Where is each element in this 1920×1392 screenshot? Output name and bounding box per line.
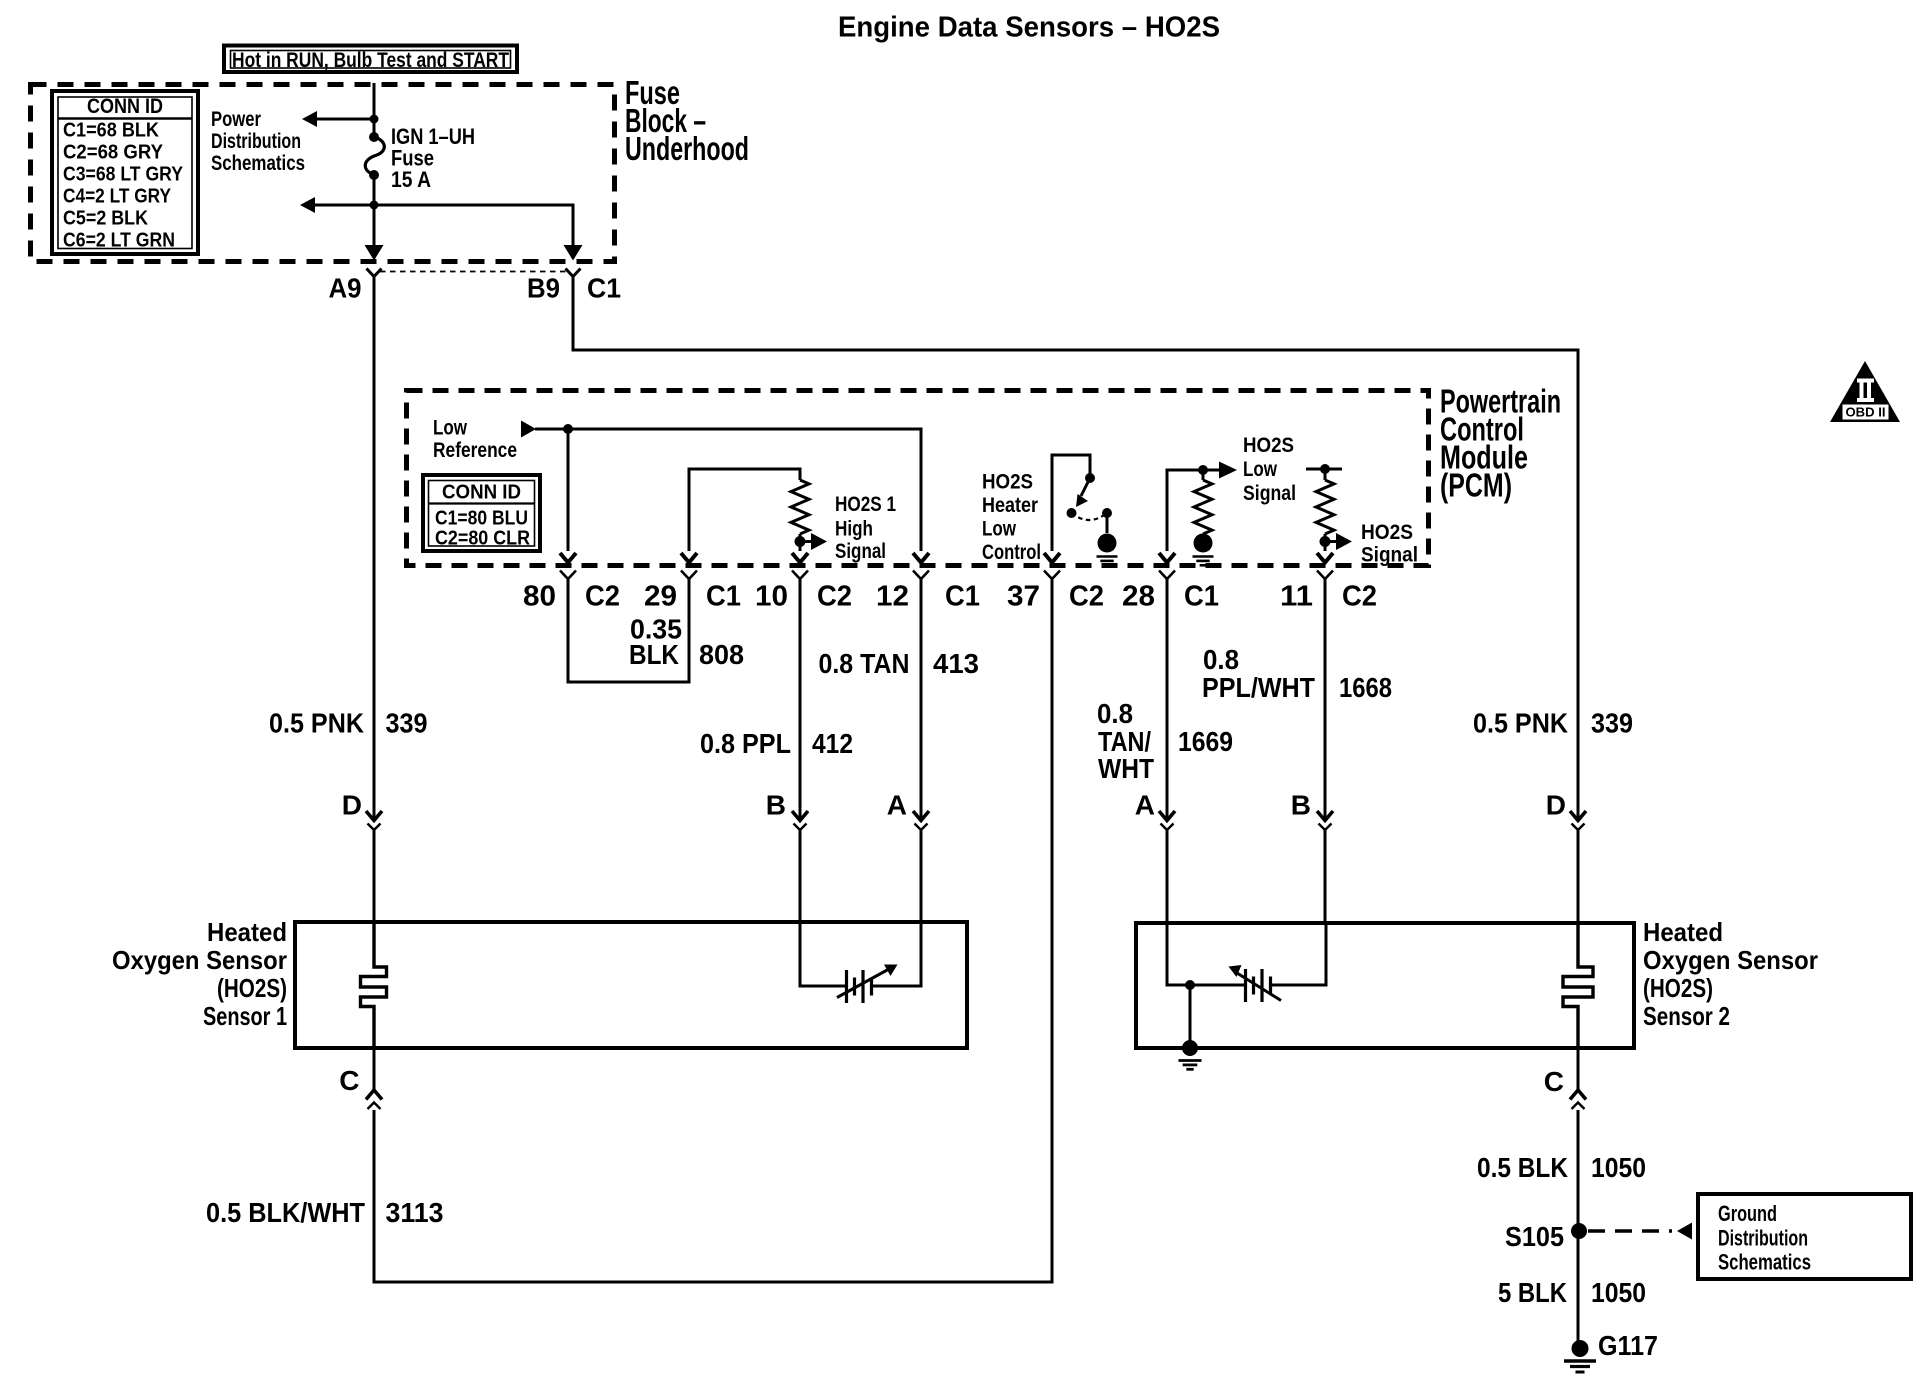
svg-text:Low: Low [1243,458,1278,481]
svg-text:C6=2 LT GRN: C6=2 LT GRN [63,229,175,252]
pin arrowhead 28 [1159,553,1175,563]
svg-text:Distribution: Distribution [1718,1226,1808,1251]
wire 1669 pin 28 to HO2S2 pin A [1166,579,1169,819]
svg-text:15 A: 15 A [391,167,431,192]
label 0.8 TAN/WHT 1669 [1097,698,1233,784]
svg-text:Schematics: Schematics [1718,1250,1811,1275]
connector pin D HO2S1 [342,790,382,831]
svg-text:B: B [766,790,786,821]
svg-text:C2=68 GRY: C2=68 GRY [63,141,163,164]
svg-text:0.5 PNK: 0.5 PNK [1473,708,1568,739]
svg-text:C2=80 CLR: C2=80 CLR [435,528,530,550]
sensor ground inside HO2S2 [1182,985,1198,1056]
svg-text:Heated: Heated [1643,917,1723,947]
svg-text:Oxygen Sensor: Oxygen Sensor [112,945,287,975]
resistor HO2S1 high signal [791,480,809,534]
fuse block underhood dashed box [31,85,615,262]
svg-text:HO2S 1: HO2S 1 [835,493,896,516]
svg-text:0.8 PPL: 0.8 PPL [700,728,791,759]
label 0.8 TAN 413 [819,648,980,679]
label 0.5 PNK 339 left [269,708,428,739]
label 0.5 PNK 339 right [1473,708,1633,739]
pin arrowhead 11 [1317,553,1333,563]
ground of heater driver [1097,555,1118,558]
svg-text:C1=80 BLU: C1=80 BLU [435,508,528,530]
svg-text:Signal: Signal [1243,482,1296,505]
svg-text:High: High [835,518,873,541]
hot in RUN label box [224,46,517,73]
svg-text:C1=68 BLK: C1=68 BLK [63,119,159,142]
PCM label [1440,383,1561,504]
svg-text:11: 11 [1280,581,1313,613]
junction at fuse output [370,201,379,210]
svg-text:A: A [1135,790,1155,821]
wire 1668 pin 11 to HO2S2 pin B [1324,579,1327,819]
pin arrowhead 29 [681,553,697,563]
powertrain control module dashed box [407,391,1429,566]
PCM pin 11 C2 [1280,571,1377,613]
svg-text:D: D [1546,790,1566,821]
svg-text:C3=68 LT GRY: C3=68 LT GRY [63,163,183,186]
connector pin A HO2S2 [1135,790,1175,831]
fuse IGN 1-UH 15 A [365,132,384,180]
label 0.8 PPL 412 [700,728,853,759]
svg-text:C1: C1 [945,581,980,613]
svg-text:0.8: 0.8 [1097,698,1133,729]
svg-text:12: 12 [876,581,909,613]
resistor HO2S low signal [1194,470,1213,553]
svg-text:808: 808 [699,639,744,670]
svg-text:Control: Control [982,541,1041,564]
power distribution schematics label [211,108,305,175]
svg-text:G117: G117 [1598,1330,1658,1361]
svg-text:C2: C2 [585,581,620,613]
svg-text:0.5 BLK: 0.5 BLK [1477,1152,1568,1183]
svg-text:10: 10 [755,581,788,613]
fuse block CONN ID table [52,91,198,254]
svg-text:A9: A9 [329,273,362,304]
HO2S signal output arrow [1325,533,1352,550]
label 0.35 BLK 808 [629,614,744,671]
svg-text:B: B [1291,790,1311,821]
ground symbol HO2S2 [1179,1059,1202,1062]
svg-text:C1: C1 [587,273,621,304]
svg-text:339: 339 [386,708,428,739]
connector pin B HO2S2 [1291,790,1333,831]
svg-text:412: 412 [812,728,853,759]
svg-text:Low: Low [982,518,1017,541]
svg-text:Distribution: Distribution [211,130,301,153]
svg-text:37: 37 [1007,581,1040,613]
connector pin B HO2S1 [766,790,808,831]
heater element HO2S1 [361,922,387,1048]
svg-text:1669: 1669 [1178,726,1233,757]
svg-text:C2: C2 [1069,581,1104,613]
PCM pin 28 C1 [1122,571,1219,613]
wire 1050 HO2S2 pin C to G117 [1577,1048,1580,1090]
ground of HO2S low signal resistor [1193,555,1214,558]
svg-text:Ground: Ground [1718,1201,1777,1226]
HO2S low signal output arrow [1219,462,1237,479]
svg-text:1050: 1050 [1591,1277,1646,1308]
svg-text:CONN ID: CONN ID [87,95,163,118]
junction at fuse input [370,115,379,124]
label 0.5 BLK 1050 [1477,1152,1646,1183]
heater element HO2S2 [1563,923,1593,1048]
HO2S Signal label [1361,521,1418,567]
low reference label [433,417,517,463]
wire 339 left segment A9 to HO2S1 pin D [373,277,376,820]
HO2S Low Signal label [1243,434,1296,505]
PCM CONN ID table [423,475,540,551]
svg-text:5 BLK: 5 BLK [1498,1277,1567,1308]
svg-text:0.5 PNK: 0.5 PNK [269,708,364,739]
ground G117 [1564,1330,1658,1372]
label 5 BLK 1050 [1498,1277,1646,1308]
OBD II symbol [1830,361,1900,422]
connector pin C HO2S2 [1544,1066,1586,1109]
terminal arrowhead A9 [365,245,384,261]
PCM pin 29 C1 [644,571,741,613]
wire 808 drain to pin 12 (low ref corner) [913,553,929,563]
label 0.5 BLK/WHT 3113 [206,1197,444,1228]
svg-text:Sensor 1: Sensor 1 [203,1001,287,1031]
heated oxygen sensor 2 label [1643,917,1818,1031]
svg-text:S105: S105 [1505,1221,1564,1252]
pin arrowhead 37 [1044,553,1060,563]
wire fuse output to B9 terminal [374,205,573,247]
label 0.8 PPL/WHT 1668 [1202,644,1392,703]
svg-text:Sensor 2: Sensor 2 [1643,1001,1730,1031]
svg-text:OBD II: OBD II [1846,405,1886,420]
svg-text:339: 339 [1591,708,1633,739]
svg-text:PPL/WHT: PPL/WHT [1202,672,1315,703]
wire 412 pin 10 to HO2S1 pin B [799,579,802,819]
svg-text:Reference: Reference [433,439,517,462]
svg-text:28: 28 [1122,581,1155,613]
svg-text:1050: 1050 [1591,1152,1646,1183]
fuse label IGN 1-UH / Fuse / 15 A [391,124,475,192]
wire fuse output [373,175,376,247]
low reference output arrow [521,421,536,438]
svg-text:HO2S: HO2S [1361,521,1413,544]
svg-text:C4=2 LT GRY: C4=2 LT GRY [63,185,171,208]
svg-text:C: C [1544,1066,1564,1097]
PCM pin 10 C2 [755,571,852,613]
svg-text:Oxygen Sensor: Oxygen Sensor [1643,945,1818,975]
sensor element HO2S2 (variable voltage cell) [1167,923,1326,1002]
ground distribution schematics reference [1588,1194,1911,1279]
PCM pin 37 C2 [1007,571,1104,613]
svg-text:Engine Data Sensors – HO2S: Engine Data Sensors – HO2S [838,12,1220,44]
heated oxygen sensor 1 label [112,917,287,1031]
terminal arrowhead B9 [564,245,583,261]
PCM pin 12 C1 [876,571,980,613]
svg-text:29: 29 [644,581,677,613]
junction below HO2S1 high signal resistor [795,534,806,551]
svg-text:Heater: Heater [982,494,1038,517]
heater low control net inside PCM [1052,455,1090,551]
wire 808 loop pin 80 to pin 29 [568,579,689,682]
HO2S1 high signal output arrow [800,533,827,550]
svg-text:Signal: Signal [835,540,886,563]
svg-text:C2: C2 [817,581,852,613]
HO2S low signal net inside PCM [1167,465,1219,551]
power distribution reference arrow upper [302,111,374,127]
wire ignition feed into fuse [373,83,376,133]
wire 339 right segment B9 to HO2S2 pin D [573,277,1578,820]
svg-text:80: 80 [523,581,556,613]
svg-text:C2: C2 [1342,581,1377,613]
svg-text:0.5 BLK/WHT: 0.5 BLK/WHT [206,1197,365,1228]
svg-text:B9: B9 [527,273,560,304]
HO2S signal net inside PCM [1306,464,1342,551]
fuse block underhood label [625,74,749,167]
connector pin C HO2S1 [339,1065,382,1109]
connector pin A HO2S1 [887,790,929,831]
internal net to HO2S1 high signal resistor [689,469,800,551]
PCM pin 80 C2 [523,571,620,613]
svg-text:0.8: 0.8 [1203,644,1239,675]
splice S105 [1505,1221,1587,1252]
connector pin D HO2S2 [1546,790,1586,831]
svg-text:3113: 3113 [386,1197,444,1228]
svg-text:Underhood: Underhood [625,130,749,167]
wire 413 pin 12 to HO2S1 pin A [920,579,923,819]
heated oxygen sensor 1 box [295,922,967,1048]
svg-text:0.8 TAN: 0.8 TAN [819,648,910,679]
svg-text:C: C [339,1065,359,1096]
svg-text:CONN ID: CONN ID [442,482,521,504]
svg-text:413: 413 [933,648,979,679]
inline connector C1 (A9 / B9) [367,269,581,277]
svg-text:Schematics: Schematics [211,152,305,175]
svg-text:C5=2 BLK: C5=2 BLK [63,207,148,230]
svg-text:Hot in RUN, Bulb Test and STAR: Hot in RUN, Bulb Test and START [232,48,509,72]
HO2S 1 High Signal label [835,493,896,563]
svg-text:1668: 1668 [1339,672,1392,703]
pin arrowhead 10 [792,553,808,563]
power distribution reference arrow lower [300,197,374,213]
wire 3113 HO2S1 pin C to PCM pin 37 [373,1048,376,1090]
svg-text:HO2S: HO2S [1243,434,1294,457]
heater driver switch [1067,473,1117,553]
svg-text:Signal: Signal [1361,544,1418,567]
svg-text:BLK: BLK [629,639,679,670]
svg-text:C1: C1 [706,581,741,613]
svg-text:(HO2S): (HO2S) [217,973,287,1003]
svg-text:D: D [342,790,362,821]
svg-text:C1: C1 [1184,581,1219,613]
svg-text:Heated: Heated [207,917,287,947]
svg-text:(HO2S): (HO2S) [1643,973,1713,1003]
svg-text:HO2S: HO2S [982,471,1033,494]
svg-text:WHT: WHT [1098,753,1154,784]
sensor element HO2S1 (variable voltage cell) [800,922,921,1003]
HO2S heater low control label [982,471,1041,565]
heated oxygen sensor 2 box [1136,923,1634,1048]
svg-text:Low: Low [433,417,468,440]
svg-text:(PCM): (PCM) [1440,467,1512,504]
low reference net inside PCM [535,424,921,551]
wire 808 drain to pin 80 [560,553,576,563]
svg-text:Power: Power [211,108,261,131]
svg-text:A: A [887,790,907,821]
